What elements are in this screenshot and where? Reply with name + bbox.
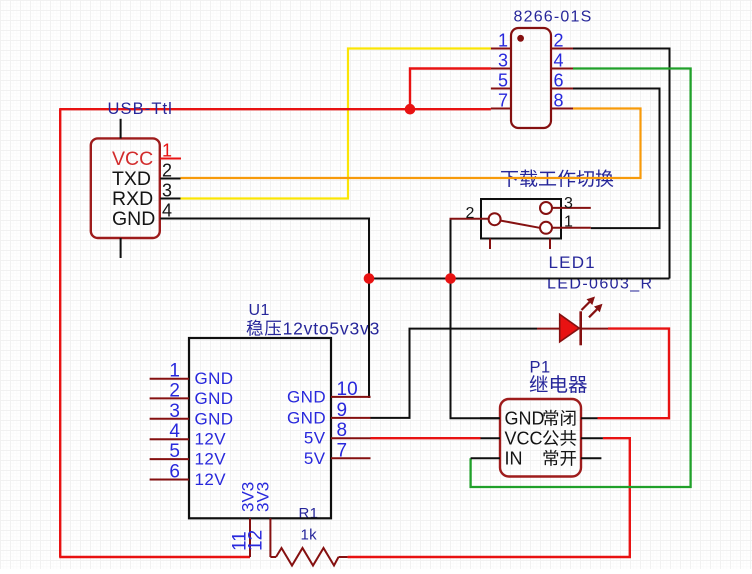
8266-01S pin 5 stub bbox=[491, 88, 511, 90]
R1 right lead bbox=[339, 556, 348, 558]
U1 pin 5 stub bbox=[150, 458, 189, 460]
relay pin VCC stub bbox=[481, 437, 501, 439]
wire black node A down to U1 pin10 bbox=[369, 279, 371, 397]
wire red U1 pin8 5V to relay VCC bbox=[371, 437, 481, 439]
switch pole contact circle bbox=[489, 213, 501, 225]
USB-Ttl pin 3 stub bbox=[160, 198, 180, 200]
svg-text:GND: GND bbox=[287, 408, 326, 427]
svg-text:12vto5v3v3: 12vto5v3v3 bbox=[283, 319, 381, 339]
svg-text:12V: 12V bbox=[195, 450, 227, 469]
svg-text:4: 4 bbox=[554, 51, 564, 71]
svg-text:2: 2 bbox=[162, 161, 172, 181]
wire VCC red top horizontal to 8266 pin7 bbox=[59, 108, 491, 110]
svg-text:1: 1 bbox=[498, 31, 508, 51]
LED triangle bbox=[560, 314, 580, 342]
svg-text:GND: GND bbox=[195, 389, 234, 408]
USB-Ttl pin 1 stub bbox=[160, 158, 181, 160]
svg-text:3V3: 3V3 bbox=[254, 482, 273, 512]
USB-Ttl pin 4 stub bbox=[160, 218, 180, 220]
resistor R1 bbox=[270, 548, 347, 566]
8266-01S pin1 mark dot bbox=[517, 35, 524, 42]
switch bottom stub right bbox=[549, 239, 551, 250]
svg-text:8266-01S: 8266-01S bbox=[514, 8, 593, 25]
U1 pin 4 stub bbox=[150, 438, 189, 440]
R1 left lead bbox=[270, 556, 276, 558]
svg-text:3: 3 bbox=[169, 401, 180, 422]
relay pin COM stub bbox=[581, 437, 603, 439]
svg-text:2: 2 bbox=[169, 380, 180, 401]
svg-text:U1: U1 bbox=[249, 302, 270, 319]
USB-Ttl pin 2 stub bbox=[160, 178, 180, 180]
svg-text:TXD: TXD bbox=[112, 168, 151, 190]
svg-text:USB-Ttl: USB-Ttl bbox=[108, 100, 173, 118]
wire black node B down to relay GND bbox=[451, 279, 501, 419]
svg-text:7: 7 bbox=[498, 91, 508, 111]
wire yellow USB RXD to 8266 pin1 bbox=[181, 49, 491, 199]
switch pin 2 stub bbox=[450, 218, 489, 220]
relay pin NO stub bbox=[581, 457, 601, 459]
svg-text:GND: GND bbox=[505, 409, 545, 429]
wire black USB GND to node A bbox=[181, 219, 370, 279]
U1 pin 10 stub bbox=[331, 396, 371, 398]
svg-text:8: 8 bbox=[554, 91, 564, 111]
LED arrow 1 bbox=[582, 297, 596, 311]
U1 pin 6 stub bbox=[150, 479, 189, 481]
svg-text:7: 7 bbox=[337, 440, 348, 461]
USB-Ttl top pin bbox=[120, 119, 122, 139]
svg-text:3: 3 bbox=[162, 181, 172, 201]
wire VCC red vertical left side bbox=[59, 109, 61, 557]
svg-text:8: 8 bbox=[337, 420, 348, 441]
8266-01S pin 8 stub bbox=[551, 108, 573, 110]
svg-text:2: 2 bbox=[466, 205, 475, 222]
LED arrow 2 bbox=[589, 304, 603, 318]
relay P1 bbox=[471, 399, 603, 477]
svg-text:12V: 12V bbox=[195, 430, 227, 449]
U1 pin 12 stub bbox=[269, 518, 271, 557]
svg-text:6: 6 bbox=[169, 462, 180, 483]
junction node B bbox=[445, 273, 456, 284]
module 8266-01S bbox=[491, 28, 573, 128]
svg-text:LED1: LED1 bbox=[549, 253, 596, 272]
8266-01S pin 4 stub bbox=[551, 68, 573, 70]
switch body bbox=[481, 199, 561, 239]
8266-01S pin 1 stub bbox=[491, 48, 511, 50]
R1 zigzag bbox=[276, 548, 339, 566]
svg-text:R1: R1 bbox=[299, 505, 319, 522]
relay pin name 公共 bbox=[543, 430, 576, 446]
wire red branch up to 8266 pin3 bbox=[410, 69, 491, 110]
relay pin GND stub bbox=[480, 417, 500, 419]
LED cathode lead bbox=[581, 328, 608, 330]
svg-text:12V: 12V bbox=[195, 470, 227, 489]
svg-text:GND: GND bbox=[112, 208, 155, 230]
relay body bbox=[500, 399, 581, 477]
label 继电器 value bbox=[530, 375, 587, 393]
svg-text:9: 9 bbox=[337, 400, 348, 421]
svg-text:1: 1 bbox=[162, 141, 172, 161]
svg-text:GND: GND bbox=[287, 387, 326, 406]
8266-01S pin 3 stub bbox=[491, 68, 511, 70]
wire black node B up to switch pin2 bbox=[450, 219, 452, 279]
svg-text:1: 1 bbox=[169, 361, 180, 382]
switch pin 3 stub bbox=[552, 207, 591, 209]
wire black GND bus horizontal node A to 8266 pin2 riser bbox=[369, 278, 670, 280]
svg-text:VCC: VCC bbox=[112, 148, 153, 170]
U1 pin 2 stub bbox=[150, 397, 189, 399]
relay pin name 常闭 bbox=[544, 410, 576, 426]
wire red bottom horizontal left of R1 bbox=[59, 556, 250, 558]
USB-Ttl bottom pin bbox=[120, 238, 122, 258]
relay pin name 常开 bbox=[544, 450, 577, 466]
connector USB-Ttl bbox=[91, 119, 181, 258]
svg-text:4: 4 bbox=[169, 421, 180, 442]
USB-Ttl body bbox=[91, 138, 160, 238]
wire black U1 pin9 to LED anode bbox=[371, 329, 538, 418]
U1 pin 8 stub bbox=[331, 437, 371, 439]
switch lever bbox=[501, 221, 540, 228]
wire black 8266 pin6 to switch pin1 bbox=[573, 89, 660, 229]
label switch title 下载工作切换 bbox=[501, 170, 613, 188]
svg-text:5V: 5V bbox=[304, 429, 326, 448]
svg-text:GND: GND bbox=[195, 409, 234, 428]
U1 pin 1 stub bbox=[150, 378, 189, 380]
svg-text:10: 10 bbox=[337, 379, 358, 400]
svg-text:1: 1 bbox=[564, 214, 573, 231]
U1 pin 3 stub bbox=[150, 418, 189, 420]
svg-text:3: 3 bbox=[564, 195, 573, 212]
LED LED1 bbox=[537, 297, 608, 346]
svg-text:12: 12 bbox=[246, 530, 267, 551]
switch throw contact circle top bbox=[540, 202, 552, 214]
wire black 8266 pin2 down bbox=[573, 49, 670, 279]
U1 body bbox=[189, 338, 331, 518]
8266-01S pin 7 stub bbox=[491, 108, 511, 110]
relay pin NC stub bbox=[581, 417, 598, 419]
svg-text:3: 3 bbox=[498, 51, 508, 71]
svg-text:4: 4 bbox=[162, 201, 172, 221]
8266-01S body bbox=[511, 28, 551, 128]
U1 pin 11 stub bbox=[249, 518, 251, 557]
wire red bottom horizontal right of R1 to relay COM bbox=[348, 438, 630, 557]
relay pin IN stub bbox=[471, 457, 500, 459]
wire green 8266 pin4 to relay IN bbox=[471, 69, 691, 488]
svg-text:5: 5 bbox=[498, 71, 508, 91]
label 稳压12vto5v3v3 value bbox=[247, 320, 281, 336]
LED anode lead bbox=[537, 328, 560, 330]
svg-text:P1: P1 bbox=[530, 359, 551, 377]
8266-01S pin 2 stub bbox=[551, 48, 573, 50]
wire orange USB TXD to 8266 pin8 bbox=[181, 109, 641, 179]
wire red LED cathode to relay NC bbox=[598, 329, 670, 419]
svg-text:GND: GND bbox=[195, 369, 234, 388]
svg-text:5: 5 bbox=[169, 441, 180, 462]
svg-text:2: 2 bbox=[554, 31, 564, 51]
svg-text:VCC: VCC bbox=[505, 429, 543, 449]
switch pin 1 stub bbox=[552, 227, 591, 229]
switch throw contact circle bottom bbox=[540, 222, 552, 234]
svg-text:IN: IN bbox=[505, 449, 523, 469]
U1 pin 9 stub bbox=[331, 417, 371, 419]
svg-text:5V: 5V bbox=[304, 449, 326, 468]
svg-text:6: 6 bbox=[554, 71, 564, 91]
U1 pin 7 stub bbox=[331, 457, 371, 459]
svg-text:1k: 1k bbox=[301, 527, 318, 544]
switch SW 下载工作切换 bbox=[450, 195, 591, 249]
svg-text:RXD: RXD bbox=[112, 188, 153, 210]
regulator U1 bbox=[150, 338, 371, 557]
LED cathode bar bbox=[579, 311, 582, 345]
junction node A bbox=[364, 273, 375, 284]
switch bottom stub left bbox=[489, 239, 491, 250]
junction red VCC branch bbox=[405, 104, 416, 115]
8266-01S pin 6 stub bbox=[551, 88, 573, 90]
